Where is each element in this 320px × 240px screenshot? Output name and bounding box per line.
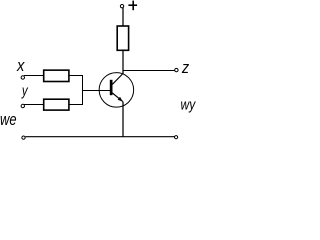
- transistor Q1 base bar: [110, 80, 113, 95]
- terminal circle common bottom-left: [22, 136, 25, 139]
- resistor R3 (collector load): [117, 26, 128, 50]
- svg-text:z: z: [181, 59, 189, 77]
- wire bottom rail we: [25, 136, 174, 138]
- wire input y to R2: [24, 104, 45, 106]
- transistor Q1 emitter stroke: [112, 93, 122, 102]
- terminal circle supply +: [120, 4, 123, 7]
- transistor Q1 circle: [99, 73, 133, 108]
- resistor R2 (y input): [44, 99, 69, 110]
- label x: [16, 57, 26, 75]
- svg-text:x: x: [16, 57, 26, 75]
- terminal circle output z: [175, 68, 178, 71]
- terminal circle input y: [21, 104, 24, 107]
- svg-text:wy: wy: [181, 96, 197, 113]
- label y: [21, 82, 29, 99]
- transistor Q1 collector stroke: [112, 74, 123, 85]
- terminal circle common bottom-right: [175, 136, 178, 139]
- svg-text:y: y: [21, 82, 29, 99]
- resistor R1 (x input): [44, 70, 69, 81]
- wire base: [82, 90, 110, 92]
- wire junction vertical: [82, 75, 84, 105]
- wire R3 to collector: [122, 50, 124, 73]
- wire collector to z: [122, 70, 174, 72]
- svg-text:we: we: [0, 110, 17, 129]
- terminal circle input x: [21, 76, 24, 79]
- transistor Q1 emitter arrowhead: [118, 97, 123, 102]
- label z: [181, 59, 189, 77]
- supply + sign: [128, 1, 137, 11]
- wire R1 to junction: [69, 75, 83, 77]
- wire supply to R3: [122, 8, 124, 26]
- wire emitter vertical: [122, 102, 124, 137]
- label wy: [181, 96, 197, 113]
- wire input x to R1: [24, 75, 45, 77]
- wire R2 to junction: [69, 104, 83, 106]
- label we: [0, 110, 17, 129]
